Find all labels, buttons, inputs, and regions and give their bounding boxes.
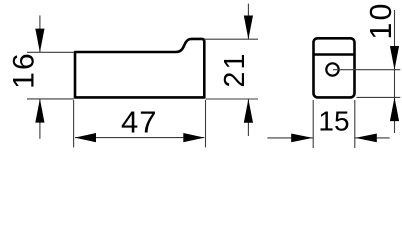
svg-text:21: 21: [219, 51, 251, 87]
dim 21: bottom extension line: [206, 98, 259, 100]
dim 21: top extension line: [204, 38, 258, 40]
front view: shoulder step line: [314, 53, 355, 56]
svg-text:47: 47: [121, 105, 157, 140]
dim 21: top arrow (down): [244, 16, 253, 40]
dim 10: dimension line: [394, 10, 396, 133]
dim 15: right arrow (points left): [355, 134, 376, 143]
dim 16: top extension line: [27, 51, 74, 53]
dim 47: left arrow: [75, 133, 96, 142]
dim 15: dimension line (tails): [267, 137, 313, 139]
dim 47: right arrow: [183, 133, 204, 142]
dim 16: dimension line (tails): [39, 15, 41, 52]
dim 47: left extension line: [73, 100, 75, 148]
dim 21: dimension line (tails): [247, 4, 249, 40]
dim 15: left arrow (points right): [291, 134, 312, 143]
dim 15: left extension line: [312, 100, 314, 148]
dim 10: lower arrow (up): [390, 97, 399, 121]
front view: body outline (rounded rect): [314, 38, 355, 97]
dim 47: right extension line: [205, 100, 207, 148]
dim 15: right extension line: [354, 100, 356, 148]
dim 16: top arrow (down): [35, 29, 44, 53]
dim 16: bottom arrow (up): [35, 99, 44, 123]
dim 21: bottom arrow (up): [244, 99, 253, 123]
side view: hook profile outline: [75, 39, 204, 98]
dim 10: bottom extension line: [357, 96, 401, 98]
svg-text:16: 16: [7, 51, 40, 89]
dim 10: upper arrow (down): [390, 46, 399, 70]
dim 47: dimension line: [75, 137, 204, 139]
svg-text:10: 10: [364, 1, 398, 39]
dim 16: bottom extension line: [27, 98, 74, 100]
svg-text:15: 15: [318, 105, 349, 136]
dim 10: hole center extension line: [333, 69, 400, 71]
front view: hole: [326, 63, 338, 75]
